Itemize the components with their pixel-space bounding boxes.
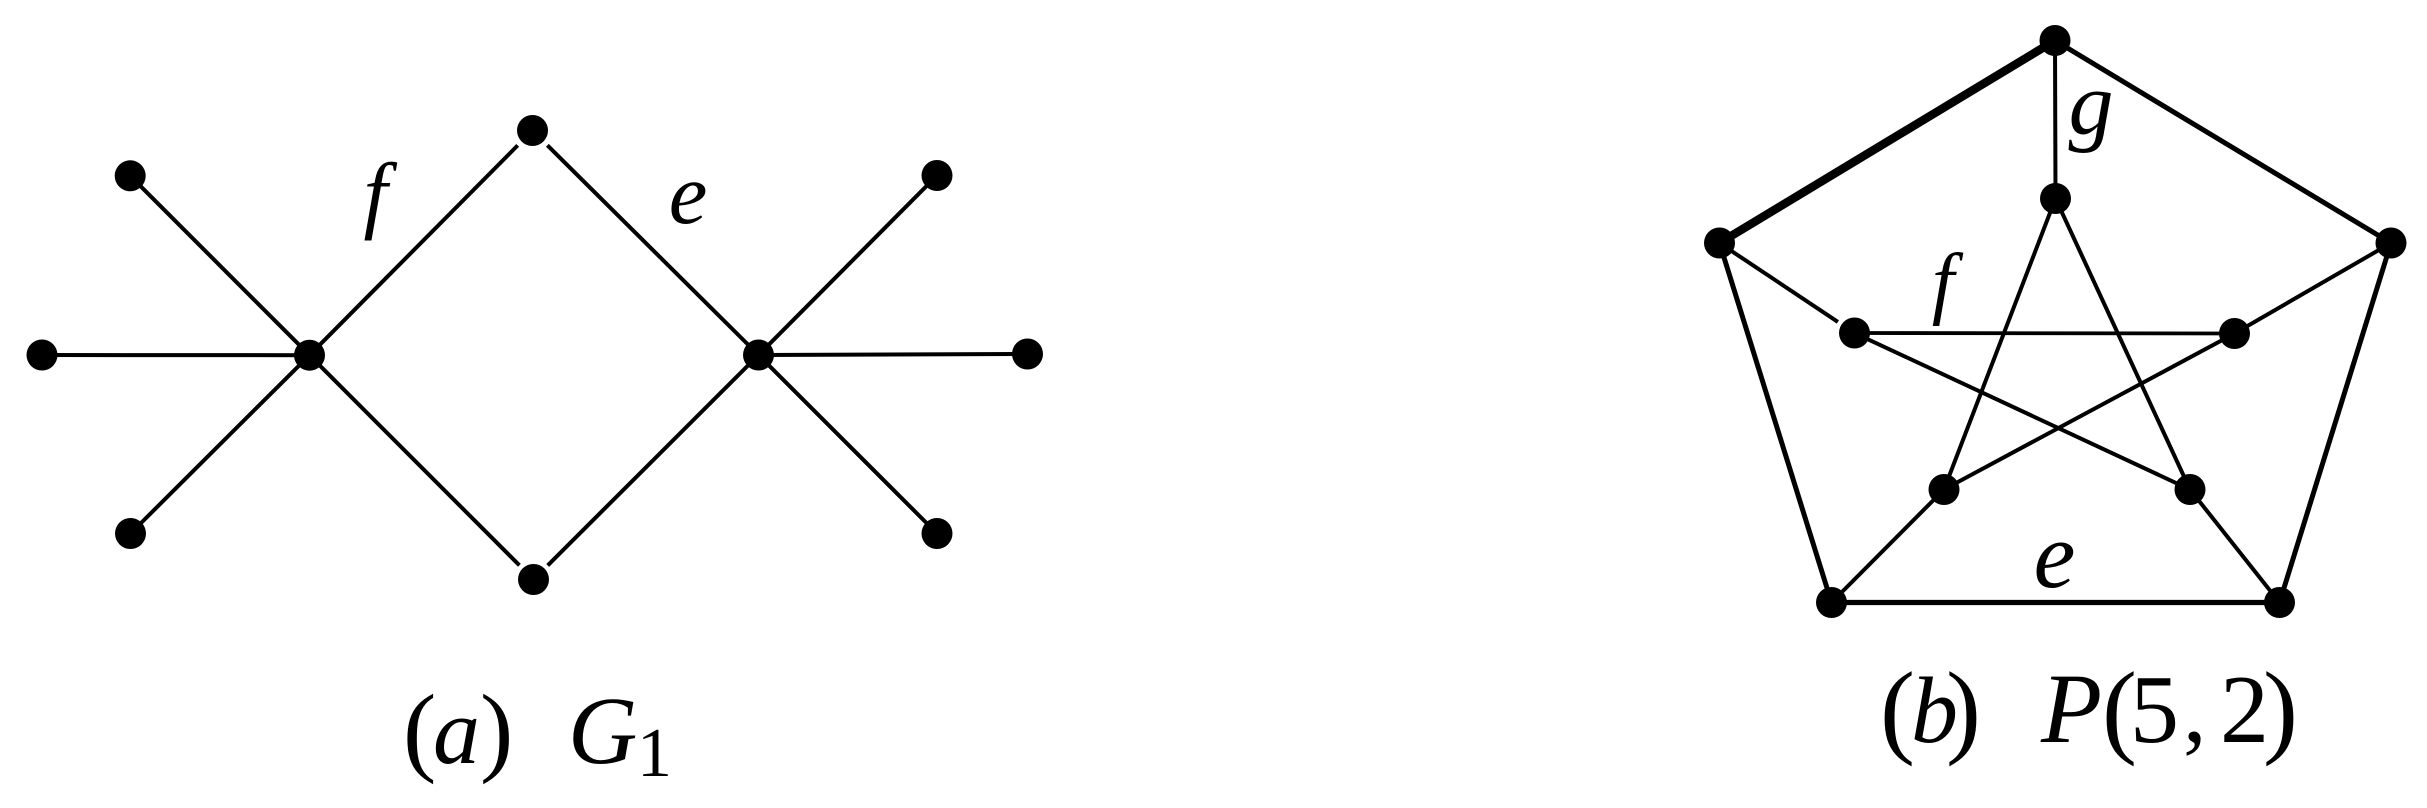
wire edge e: top vertex to right hub (graph a) [547,145,758,355]
wire spoke g: top outer to top inner (graph b) [2053,41,2058,199]
wire spoke: bottom-left outer to bottom-left inner (graph b) [1832,490,1945,603]
svg-text:P: P [2040,653,2102,764]
svg-text:1: 1 [637,715,672,792]
svg-text:a: a [433,680,480,784]
wire inner edge f: left inner to right inner (graph b) [1855,331,2235,335]
node left outer (graph b) [1704,228,1735,259]
node bottom-left inner (graph b) [1929,474,1960,505]
wire outer edge: top outer to right outer (graph b) [2055,41,2391,244]
node top outer (graph b) [2040,25,2071,56]
svg-text:): ) [1946,650,1981,767]
node left hub (graph a) [294,340,325,371]
node bottom-right outer (graph b) [2264,587,2295,618]
node top-right pendant (graph a) [922,160,953,191]
wire inner edge: left inner to bottom-right inner (graph b) [1855,333,2191,490]
wire bold outer edge: top outer to left outer (graph b) [1720,41,2056,244]
node left inner (graph b) [1839,318,1870,349]
svg-text:2: 2 [2220,656,2269,764]
wire outer edge: right outer to bottom-right outer (graph b) [2280,243,2392,603]
node right inner (graph b) [2219,318,2250,349]
wire inner edge: top inner to bottom-left inner (graph b) [1944,199,2056,490]
svg-text:,: , [2183,658,2207,762]
node right outer (graph b) [2376,228,2407,259]
wire spoke: right outer to right inner (graph b) [2235,243,2392,334]
node bottom-left pendant (graph a) [115,518,146,549]
node top inner (graph b) [2040,183,2071,214]
node left pendant (graph a) [27,340,58,371]
wire outer edge: left outer to bottom-left outer (graph b) [1720,243,1832,603]
svg-text:g: g [2069,55,2114,154]
wire spoke: left outer to left inner (graph b) [1720,243,1838,322]
svg-text:): ) [480,674,513,785]
wire edge: right hub to right pendant (graph a) [759,354,1028,355]
node bottom-right inner (graph b) [2175,474,2206,505]
wire edge: left hub to bottom vertex (graph a) [310,355,520,565]
wire edge: right hub to bottom-right pendant (graph a) [759,355,938,534]
node bottom vertex (graph a) [518,564,549,595]
wire edge: right hub to top-right pendant (graph a) [759,176,938,356]
wire outer edge e: bottom-left outer to bottom-right outer (graph b) [1832,600,2280,605]
wire inner edge: top inner to bottom-right inner (graph b) [2056,199,2191,490]
svg-text:(: ( [1880,650,1915,767]
wire edge: left hub to left pendant (graph a) [42,353,310,357]
node top vertex (graph a) [517,115,548,146]
svg-text:e: e [669,145,708,242]
wire edge: bottom vertex to right hub (graph a) [548,355,759,565]
svg-text:e: e [2034,504,2076,608]
node right pendant (graph a) [1012,339,1043,370]
wire edge: left hub to top-left pendant (graph a) [130,176,309,355]
wire spoke: bottom-right outer to bottom-right inner (graph b) [2190,490,2280,603]
svg-text:(: ( [403,674,436,785]
node bottom-right pendant (graph a) [922,518,953,549]
node bottom-left outer (graph b) [1816,587,1847,618]
svg-text:G: G [568,677,637,784]
svg-text:): ) [2263,650,2298,767]
svg-text:5: 5 [2130,656,2179,764]
wire edge: left hub to bottom-left pendant (graph a) [131,355,310,533]
node top-left pendant (graph a) [115,160,146,191]
wire inner edge: right inner to bottom-left inner (graph b) [1944,334,2235,490]
node right hub (graph a) [743,340,774,371]
wire edge f: left hub to top vertex (graph a) [310,145,518,355]
